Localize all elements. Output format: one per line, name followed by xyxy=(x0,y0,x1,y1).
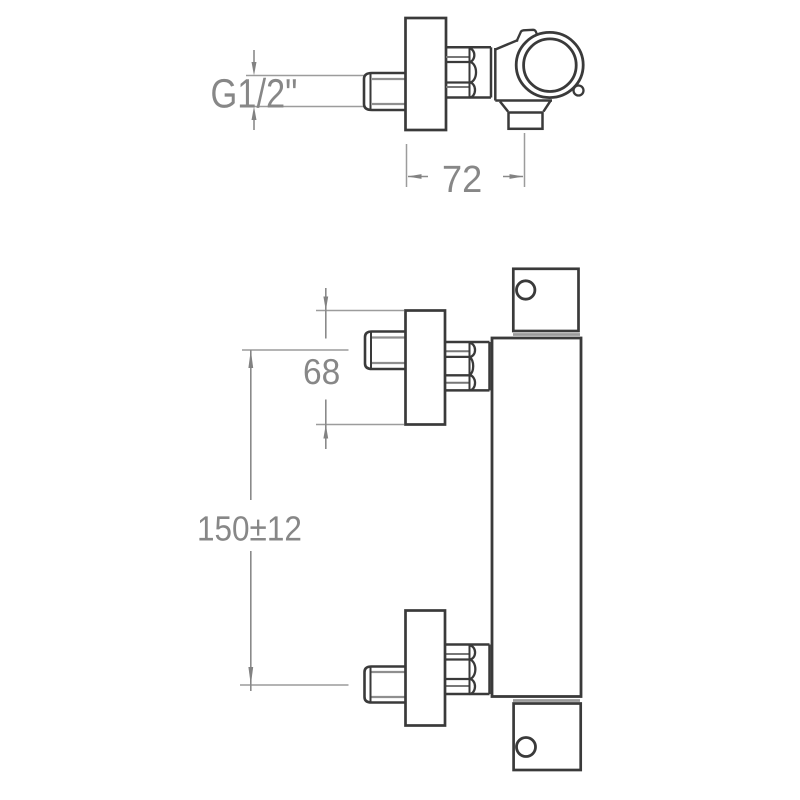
svg-text:68: 68 xyxy=(303,351,340,392)
svg-text:150±12: 150±12 xyxy=(197,510,302,549)
svg-text:72: 72 xyxy=(442,159,482,201)
svg-text:G1/2": G1/2" xyxy=(211,71,298,117)
